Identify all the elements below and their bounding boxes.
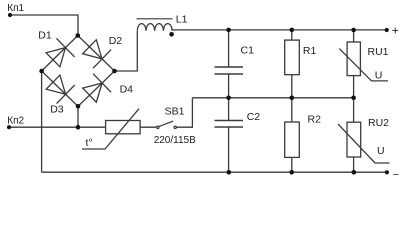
svg-text:−: − <box>393 169 399 180</box>
wire Kn1 to bridge top <box>10 15 78 36</box>
svg-text:SB1: SB1 <box>165 106 185 118</box>
terminal plus <box>385 28 389 32</box>
node bridge left <box>39 69 44 74</box>
svg-text:Кп1: Кп1 <box>7 3 24 14</box>
varistor RU1 leads <box>353 30 355 98</box>
varistor RU1 diagonal and foot <box>339 49 388 81</box>
node bottom rail R2 <box>289 170 294 175</box>
node top rail C1 <box>226 28 231 33</box>
diode D1 bar <box>56 38 74 57</box>
diode D3 bar <box>57 85 75 104</box>
svg-text:U: U <box>375 70 383 82</box>
wire bridge right to inductor <box>115 31 138 71</box>
capacitor C1 bottom lead <box>228 74 230 98</box>
terminal minus <box>385 170 389 174</box>
node L1 output <box>169 32 174 37</box>
node bridge top <box>76 33 81 38</box>
diode D4 bar <box>93 74 111 93</box>
svg-text:t°: t° <box>86 137 93 149</box>
wire bridge diamond edges <box>42 36 115 107</box>
svg-text:D1: D1 <box>38 30 52 42</box>
resistor R2 body <box>285 122 300 157</box>
resistor R2 leads <box>291 98 293 172</box>
inductor L1 label line <box>137 18 173 20</box>
thermistor diagonal and foot <box>82 109 139 149</box>
svg-text:+: + <box>392 23 399 37</box>
wire Kn2 to thermistor <box>9 126 106 128</box>
diode D1 triangle <box>46 48 65 67</box>
svg-text:RU1: RU1 <box>368 46 389 58</box>
svg-text:R2: R2 <box>308 114 322 126</box>
svg-text:RU2: RU2 <box>368 117 389 129</box>
node mid rail RU <box>351 96 356 101</box>
thermistor body <box>106 121 141 134</box>
node mid rail C <box>226 96 231 101</box>
diode D2 bar <box>93 50 111 69</box>
inductor L1 coil <box>137 24 172 31</box>
node top rail R1 <box>290 28 295 33</box>
varistor RU2 body <box>347 122 361 157</box>
svg-text:L1: L1 <box>176 13 188 25</box>
terminal Kn2 <box>7 125 11 129</box>
varistor RU2 leads <box>353 98 355 172</box>
wire top rail (plus) <box>172 29 387 31</box>
diode D3 triangle <box>46 75 65 94</box>
capacitor C2 bottom lead <box>228 127 230 172</box>
varistor RU1 body <box>347 42 360 76</box>
svg-text:D2: D2 <box>109 35 123 47</box>
node Kn2 junction <box>76 125 81 130</box>
diode D4 triangle <box>83 83 102 102</box>
wire switch to mid rail <box>176 98 192 127</box>
node bottom rail C2 <box>227 170 232 175</box>
switch SB1 contact right <box>174 126 176 128</box>
svg-text:220/115В: 220/115В <box>154 135 196 146</box>
svg-text:D3: D3 <box>50 104 64 116</box>
wire thermistor to switch <box>140 126 157 128</box>
node bridge right <box>112 69 117 74</box>
terminal Kn1 <box>8 13 12 17</box>
capacitor C1 top lead <box>228 30 230 67</box>
node top rail RU1 <box>351 28 356 33</box>
svg-text:U: U <box>377 145 385 157</box>
capacitor C2 plates <box>215 121 244 128</box>
resistor R1 leads <box>291 30 293 98</box>
node bridge bottom <box>76 104 81 109</box>
svg-text:R1: R1 <box>303 45 317 57</box>
svg-text:C1: C1 <box>241 44 255 56</box>
wire bridge left to bottom rail <box>41 71 43 172</box>
wire mid rail <box>192 97 353 99</box>
switch SB1 contact left <box>157 126 159 128</box>
node bottom rail RU2 <box>352 170 357 175</box>
wire bridge bottom to Kn2 net <box>77 106 79 127</box>
svg-text:D4: D4 <box>120 83 134 95</box>
capacitor C1 plates <box>215 67 244 74</box>
diode D2 triangle <box>83 40 102 59</box>
svg-text:Кп2: Кп2 <box>7 115 24 126</box>
svg-text:C2: C2 <box>247 111 261 123</box>
wire bottom rail (minus) <box>42 171 387 173</box>
resistor R1 body <box>285 40 300 75</box>
capacitor C2 top lead <box>228 98 230 121</box>
varistor RU2 diagonal and foot <box>338 124 390 163</box>
switch SB1 lever <box>159 121 173 127</box>
node mid rail R <box>290 96 295 101</box>
